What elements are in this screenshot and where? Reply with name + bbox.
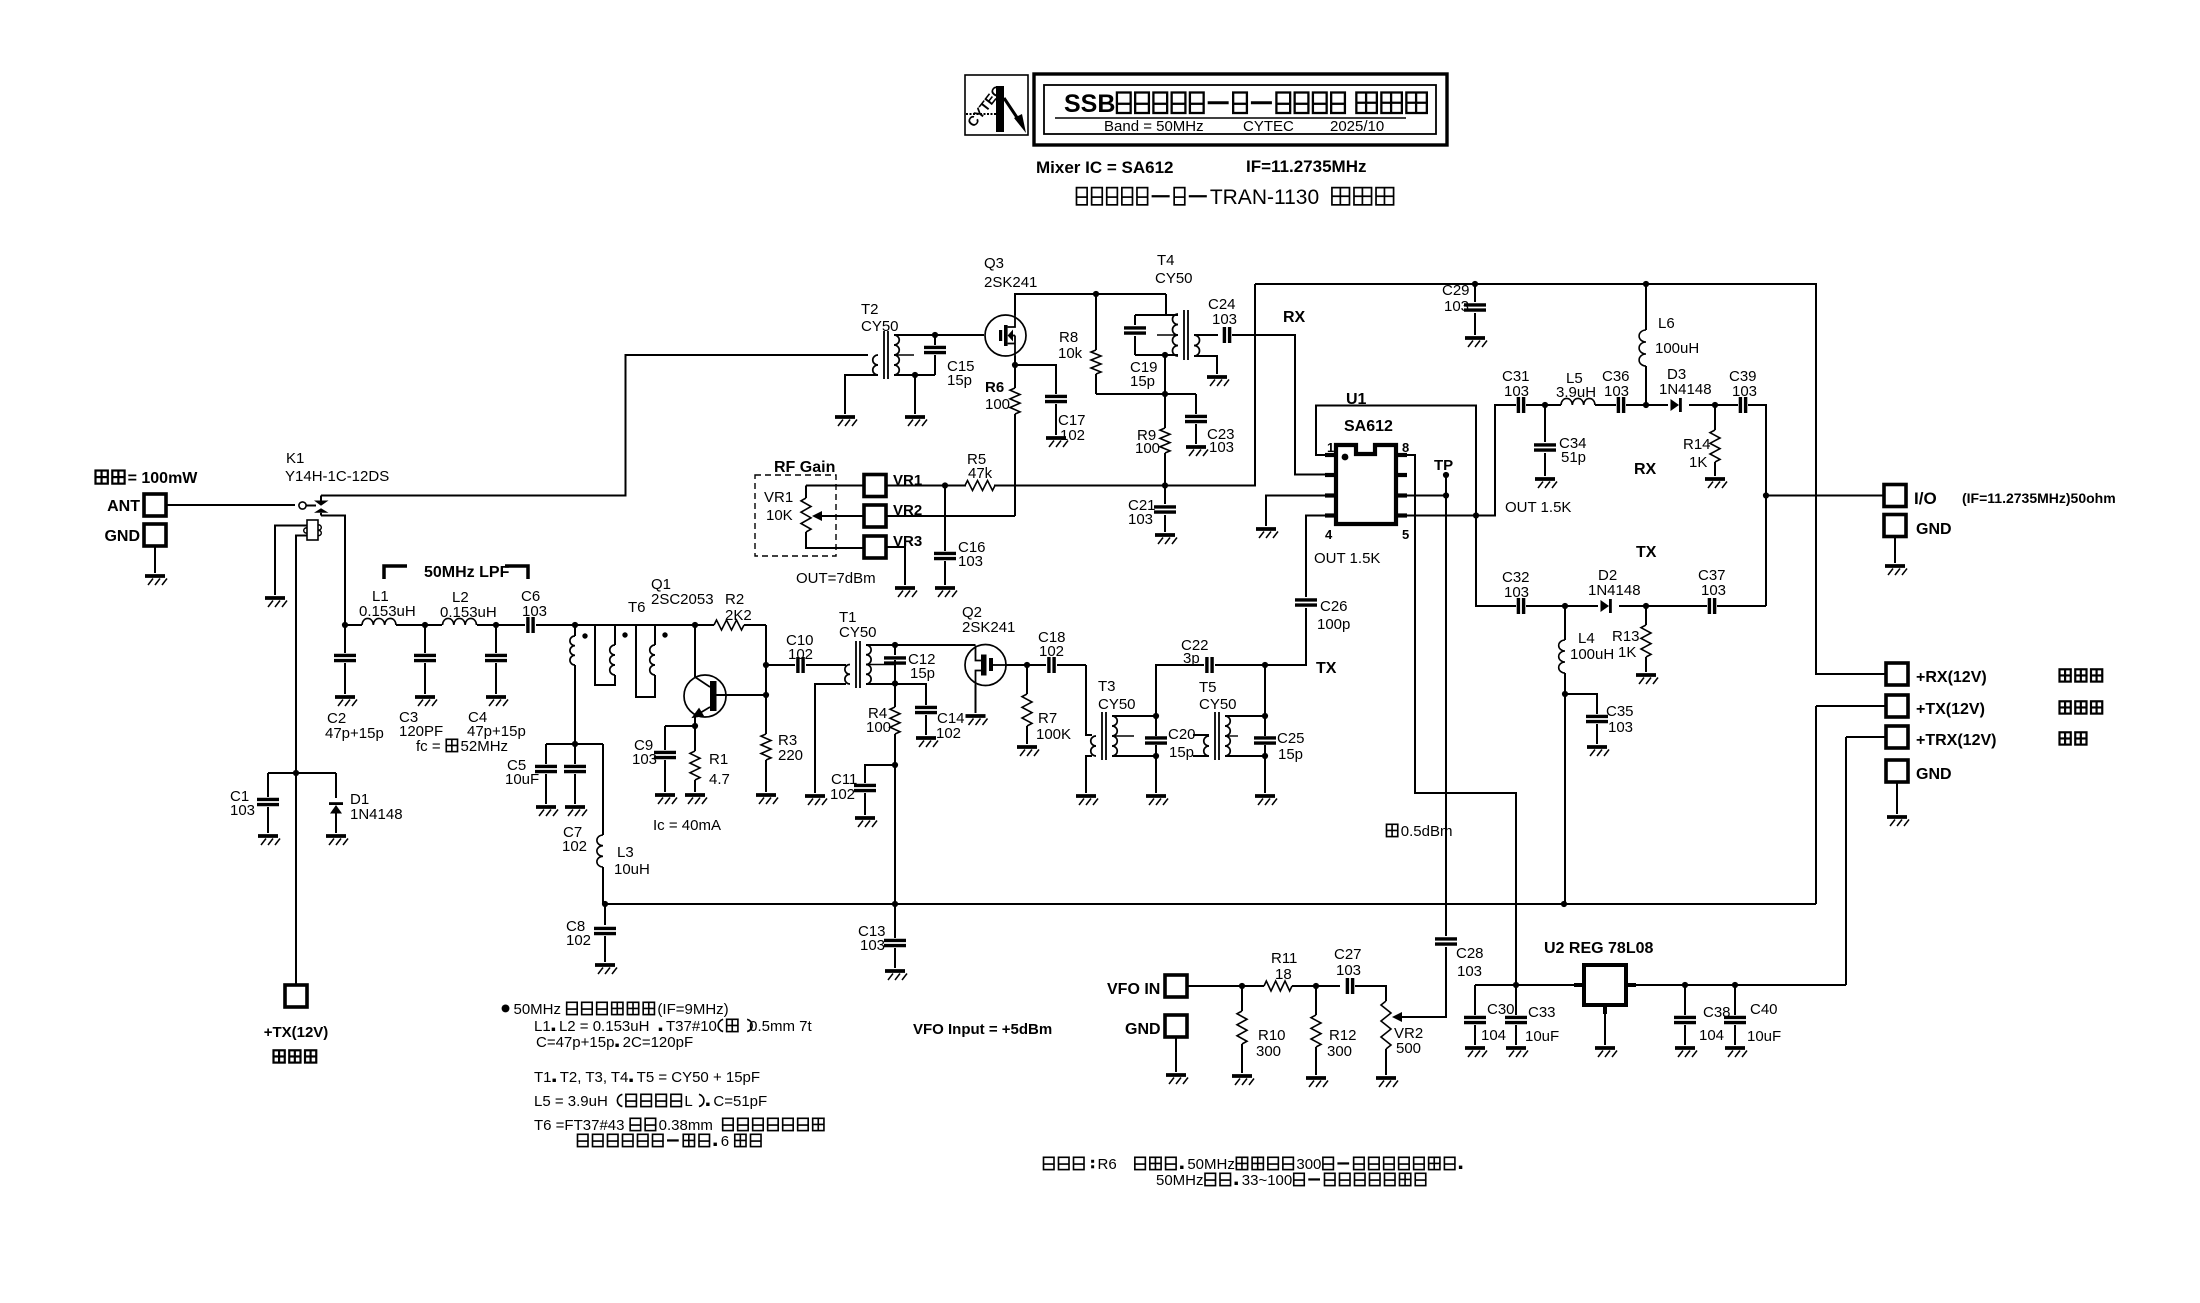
svg-text:+RX(12V): +RX(12V) bbox=[1916, 669, 1987, 686]
svg-text:0.38mm: 0.38mm bbox=[659, 1117, 713, 1134]
svg-text:K1: K1 bbox=[286, 450, 304, 467]
svg-text:2SK241: 2SK241 bbox=[984, 274, 1037, 291]
svg-text:102: 102 bbox=[1039, 643, 1064, 660]
svg-text:GND: GND bbox=[1916, 766, 1952, 783]
svg-text:C25: C25 bbox=[1277, 730, 1305, 747]
svg-text:10uF: 10uF bbox=[505, 771, 539, 788]
svg-text:5: 5 bbox=[1402, 527, 1409, 542]
svg-text:103: 103 bbox=[958, 553, 983, 570]
svg-text:C40: C40 bbox=[1750, 1001, 1778, 1018]
svg-text:2C=120pF: 2C=120pF bbox=[623, 1034, 693, 1051]
svg-text:CY50: CY50 bbox=[1098, 696, 1136, 713]
svg-text:33~100: 33~100 bbox=[1242, 1172, 1292, 1189]
svg-text:102: 102 bbox=[788, 646, 813, 663]
svg-text:VFO IN: VFO IN bbox=[1107, 981, 1160, 998]
svg-text:4: 4 bbox=[1325, 527, 1333, 542]
svg-text:Q3: Q3 bbox=[984, 255, 1004, 272]
svg-text:I/O: I/O bbox=[1914, 489, 1937, 508]
svg-text:+TRX(12V): +TRX(12V) bbox=[1916, 732, 1996, 749]
svg-text:103: 103 bbox=[1732, 383, 1757, 400]
svg-text:2SC2053: 2SC2053 bbox=[651, 591, 714, 608]
svg-text:0.153uH: 0.153uH bbox=[440, 604, 497, 621]
svg-text:OUT=7dBm: OUT=7dBm bbox=[796, 570, 876, 587]
svg-text:102: 102 bbox=[830, 786, 855, 803]
svg-text:SSB: SSB bbox=[1064, 90, 1115, 118]
svg-text:C26: C26 bbox=[1320, 598, 1348, 615]
svg-text:TRAN-1130: TRAN-1130 bbox=[1210, 186, 1319, 209]
svg-text:T37#10: T37#10 bbox=[666, 1018, 717, 1035]
svg-text:102: 102 bbox=[562, 838, 587, 855]
svg-text:C=51pF: C=51pF bbox=[713, 1093, 767, 1110]
svg-text:(IF=9MHz): (IF=9MHz) bbox=[657, 1001, 728, 1018]
svg-text:R14: R14 bbox=[1683, 436, 1711, 453]
svg-text:104: 104 bbox=[1699, 1027, 1724, 1044]
svg-text:L: L bbox=[684, 1093, 692, 1110]
svg-text:10uF: 10uF bbox=[1747, 1028, 1781, 1045]
svg-text:TX: TX bbox=[1316, 660, 1337, 677]
svg-text:103: 103 bbox=[1504, 383, 1529, 400]
svg-text:Y14H-1C-12DS: Y14H-1C-12DS bbox=[285, 468, 389, 485]
svg-text:T6 =FT37#43: T6 =FT37#43 bbox=[534, 1117, 624, 1134]
svg-text:4.7: 4.7 bbox=[709, 771, 730, 788]
svg-text:C29: C29 bbox=[1442, 282, 1470, 299]
svg-text:103: 103 bbox=[1212, 311, 1237, 328]
svg-text:103: 103 bbox=[860, 937, 885, 954]
svg-text:300: 300 bbox=[1296, 1156, 1321, 1173]
svg-text:VR1: VR1 bbox=[764, 489, 793, 506]
svg-text:T4: T4 bbox=[1157, 252, 1175, 269]
svg-text:T5: T5 bbox=[1199, 679, 1217, 696]
svg-text:2K2: 2K2 bbox=[725, 607, 752, 624]
svg-text:TX: TX bbox=[1636, 544, 1657, 561]
svg-text:500: 500 bbox=[1396, 1040, 1421, 1057]
svg-text:50MHz: 50MHz bbox=[1156, 1172, 1204, 1189]
svg-text:+TX(12V): +TX(12V) bbox=[1916, 701, 1985, 718]
svg-text:100: 100 bbox=[866, 719, 891, 736]
svg-text:C27: C27 bbox=[1334, 946, 1362, 963]
svg-text:T6: T6 bbox=[628, 599, 646, 616]
svg-text:RX: RX bbox=[1283, 309, 1306, 326]
svg-text:10uF: 10uF bbox=[1525, 1028, 1559, 1045]
svg-text:100K: 100K bbox=[1036, 726, 1071, 743]
svg-text:C38: C38 bbox=[1703, 1004, 1731, 1021]
svg-text:R1: R1 bbox=[709, 751, 728, 768]
svg-text:2025/10: 2025/10 bbox=[1330, 118, 1384, 135]
svg-text:OUT 1.5K: OUT 1.5K bbox=[1314, 550, 1380, 567]
svg-text:RF Gain: RF Gain bbox=[774, 459, 835, 476]
svg-text:8: 8 bbox=[1402, 440, 1409, 455]
svg-text:IF=11.2735MHz: IF=11.2735MHz bbox=[1246, 157, 1367, 176]
svg-text:103: 103 bbox=[1504, 584, 1529, 601]
svg-text:10k: 10k bbox=[1058, 345, 1083, 362]
svg-text:R7: R7 bbox=[1038, 710, 1057, 727]
svg-text:300: 300 bbox=[1256, 1043, 1281, 1060]
svg-text:CY50: CY50 bbox=[861, 318, 899, 335]
svg-text:100uH: 100uH bbox=[1655, 340, 1699, 357]
svg-text:R6: R6 bbox=[1098, 1156, 1117, 1173]
svg-text:C35: C35 bbox=[1606, 703, 1634, 720]
svg-text:18: 18 bbox=[1275, 966, 1292, 983]
svg-text:3.9uH: 3.9uH bbox=[1556, 384, 1596, 401]
svg-text:T3: T3 bbox=[1098, 678, 1116, 695]
svg-text:GND: GND bbox=[104, 528, 140, 545]
svg-text:51p: 51p bbox=[1561, 449, 1586, 466]
svg-text:47p+15p: 47p+15p bbox=[325, 725, 384, 742]
svg-text:103: 103 bbox=[1604, 383, 1629, 400]
svg-text:1N4148: 1N4148 bbox=[1588, 582, 1641, 599]
svg-text:300: 300 bbox=[1327, 1043, 1352, 1060]
svg-text:103: 103 bbox=[1608, 719, 1633, 736]
svg-text:CY50: CY50 bbox=[839, 624, 877, 641]
svg-text:R13: R13 bbox=[1612, 628, 1640, 645]
svg-text:1K: 1K bbox=[1618, 644, 1636, 661]
svg-text:R10: R10 bbox=[1258, 1027, 1286, 1044]
svg-text:15p: 15p bbox=[1130, 373, 1155, 390]
svg-text:0.5mm 7t: 0.5mm 7t bbox=[749, 1018, 812, 1035]
svg-text:100p: 100p bbox=[1317, 616, 1350, 633]
svg-text:L2 = 0.153uH: L2 = 0.153uH bbox=[559, 1018, 650, 1035]
svg-text:ANT: ANT bbox=[107, 498, 140, 515]
svg-text:50MHz: 50MHz bbox=[1187, 1156, 1235, 1173]
svg-text:100uH: 100uH bbox=[1570, 646, 1614, 663]
svg-text:15p: 15p bbox=[947, 372, 972, 389]
svg-text:L3: L3 bbox=[617, 844, 634, 861]
svg-text:15p: 15p bbox=[1278, 746, 1303, 763]
svg-text:52MHz: 52MHz bbox=[461, 738, 509, 755]
svg-text:10uH: 10uH bbox=[614, 861, 650, 878]
svg-text:102: 102 bbox=[936, 725, 961, 742]
svg-text:103: 103 bbox=[1444, 298, 1469, 315]
svg-text:CY50: CY50 bbox=[1199, 696, 1237, 713]
svg-text:T2: T2 bbox=[861, 301, 879, 318]
svg-text:0.153uH: 0.153uH bbox=[359, 603, 416, 620]
svg-text:10K: 10K bbox=[766, 507, 793, 524]
svg-text:L6: L6 bbox=[1658, 315, 1675, 332]
svg-text:C33: C33 bbox=[1528, 1004, 1556, 1021]
svg-text:SA612: SA612 bbox=[1344, 418, 1393, 435]
svg-text:103: 103 bbox=[1209, 439, 1234, 456]
svg-text:C30: C30 bbox=[1487, 1001, 1515, 1018]
svg-text:15p: 15p bbox=[1169, 744, 1194, 761]
svg-text:1N4148: 1N4148 bbox=[350, 806, 403, 823]
svg-text:GND: GND bbox=[1125, 1021, 1161, 1038]
svg-text:R6: R6 bbox=[985, 379, 1004, 396]
svg-text:103: 103 bbox=[1457, 963, 1482, 980]
svg-text:Ic = 40mA: Ic = 40mA bbox=[653, 817, 721, 834]
svg-text:103: 103 bbox=[632, 751, 657, 768]
svg-text:R11: R11 bbox=[1271, 950, 1297, 967]
svg-text:R8: R8 bbox=[1059, 329, 1078, 346]
svg-text:103: 103 bbox=[1701, 582, 1726, 599]
svg-text:103: 103 bbox=[1336, 962, 1361, 979]
svg-text:L4: L4 bbox=[1578, 630, 1595, 647]
svg-text:103: 103 bbox=[230, 802, 255, 819]
svg-text:C=47p+15p: C=47p+15p bbox=[536, 1034, 614, 1051]
svg-text:T5 = CY50 + 15pF: T5 = CY50 + 15pF bbox=[637, 1069, 760, 1086]
svg-text:220: 220 bbox=[778, 747, 803, 764]
svg-text:fc =: fc = bbox=[416, 738, 441, 755]
svg-text:3p: 3p bbox=[1183, 650, 1200, 667]
svg-text:VR2: VR2 bbox=[893, 502, 922, 519]
svg-text:15p: 15p bbox=[910, 665, 935, 682]
svg-text:1N4148: 1N4148 bbox=[1659, 381, 1712, 398]
svg-text:L1: L1 bbox=[534, 1018, 551, 1035]
svg-text:TP: TP bbox=[1434, 457, 1453, 474]
svg-text:102: 102 bbox=[1060, 427, 1085, 444]
svg-text:T1: T1 bbox=[534, 1069, 552, 1086]
svg-text:(IF=11.2735MHz)50ohm: (IF=11.2735MHz)50ohm bbox=[1962, 490, 2116, 506]
svg-text:102: 102 bbox=[566, 932, 591, 949]
svg-text:CY50: CY50 bbox=[1155, 270, 1193, 287]
svg-text:= 100mW: = 100mW bbox=[128, 470, 199, 487]
svg-text:RX: RX bbox=[1634, 461, 1657, 478]
svg-text:1: 1 bbox=[1327, 440, 1334, 455]
svg-text:CYTEC: CYTEC bbox=[1243, 118, 1294, 135]
svg-text:100: 100 bbox=[985, 396, 1010, 413]
svg-text:100: 100 bbox=[1135, 440, 1160, 457]
svg-text:U2 REG 78L08: U2 REG 78L08 bbox=[1544, 940, 1653, 957]
svg-text:R12: R12 bbox=[1329, 1027, 1357, 1044]
svg-text:2SK241: 2SK241 bbox=[962, 619, 1015, 636]
svg-text:104: 104 bbox=[1481, 1027, 1506, 1044]
svg-text:103: 103 bbox=[1128, 511, 1153, 528]
svg-text:GND: GND bbox=[1916, 521, 1952, 538]
svg-text:50MHz LPF: 50MHz LPF bbox=[424, 564, 510, 581]
svg-text:103: 103 bbox=[522, 603, 547, 620]
svg-text:0.5dBm: 0.5dBm bbox=[1401, 823, 1453, 840]
svg-text:Band = 50MHz: Band = 50MHz bbox=[1104, 118, 1204, 135]
svg-text:1K: 1K bbox=[1689, 454, 1707, 471]
svg-text:R2: R2 bbox=[725, 591, 744, 608]
svg-text:T2, T3, T4: T2, T3, T4 bbox=[560, 1069, 629, 1086]
svg-text:C28: C28 bbox=[1456, 945, 1484, 962]
svg-text:OUT 1.5K: OUT 1.5K bbox=[1505, 499, 1571, 516]
svg-text:47k: 47k bbox=[968, 465, 993, 482]
svg-text:50MHz: 50MHz bbox=[514, 1001, 562, 1018]
svg-text:L5 = 3.9uH: L5 = 3.9uH bbox=[534, 1093, 608, 1110]
svg-text:C20: C20 bbox=[1168, 726, 1196, 743]
svg-text:6: 6 bbox=[721, 1133, 729, 1150]
svg-text:VFO Input = +5dBm: VFO Input = +5dBm bbox=[913, 1021, 1052, 1038]
svg-text:Mixer IC = SA612: Mixer IC = SA612 bbox=[1036, 158, 1174, 177]
svg-text:+TX(12V): +TX(12V) bbox=[264, 1024, 329, 1041]
